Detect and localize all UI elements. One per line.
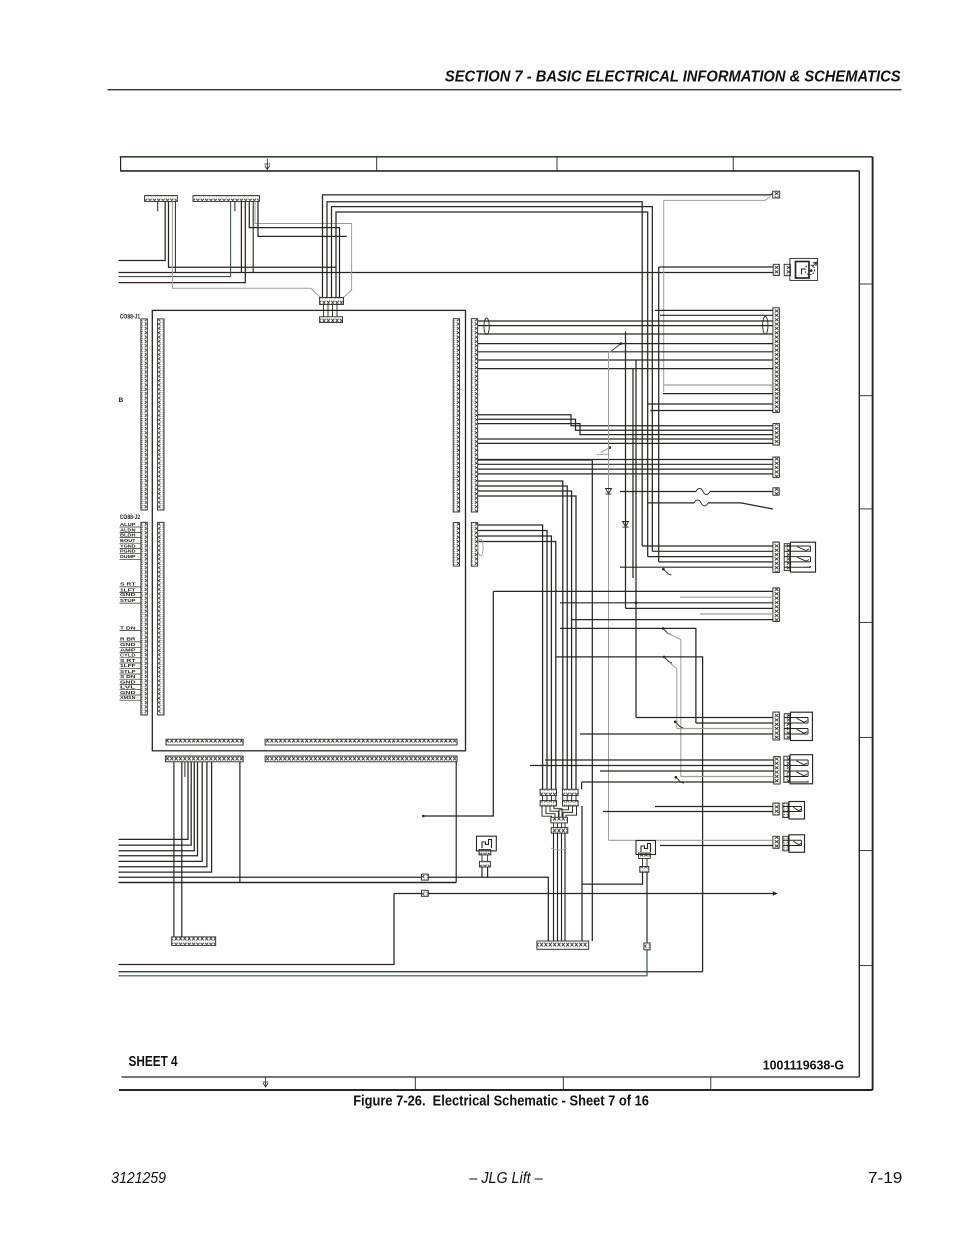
- drawing border left corner stub: [120, 157, 122, 172]
- bundle wires J3 upper to cluster C2: [478, 481, 563, 789]
- alarm A2 body pins: [639, 853, 651, 858]
- cluster connector C4: [563, 801, 579, 806]
- connector J3 inner strip lower: [453, 523, 459, 567]
- drawing border inner bottom edge: [122, 1076, 860, 1078]
- drawing border inner top edge: [121, 170, 860, 172]
- wires into K5: [642, 545, 773, 547]
- cluster interlink C1-C3: [542, 795, 544, 800]
- svg-text:B: B: [119, 397, 124, 404]
- wire X2 gray loop: [255, 201, 352, 297]
- wire long K6 pin1: [493, 590, 773, 592]
- alarm A1 drop wires: [481, 855, 483, 861]
- svg-text:SHEET 4: SHEET 4: [129, 1054, 178, 1070]
- alarm A1 connector: [479, 861, 490, 867]
- inline connector P3: [644, 943, 650, 950]
- cluster connector C6: [551, 828, 568, 834]
- wires into K3: [478, 459, 773, 461]
- wire left exit 2 long to alarm connector: [119, 272, 774, 274]
- alarm A2 connector: [640, 867, 649, 873]
- riser alarm feed: [658, 267, 660, 562]
- relay K9 strip: [773, 803, 779, 815]
- connector J4 below-box strip right: [265, 756, 457, 762]
- funnel pin links: [323, 305, 325, 317]
- bundle wires J3 lower to cluster C1: [478, 525, 543, 789]
- riser mid to dot wire: [424, 591, 493, 816]
- wire X2 loop F: [258, 201, 347, 236]
- drawing border green top line: [120, 156, 873, 158]
- cluster crossover mesh: [542, 806, 552, 817]
- ECM module box: [152, 310, 465, 750]
- gray drop 1: [668, 634, 681, 777]
- alarm A2 body: [636, 841, 656, 855]
- svg-text:SECTION 7 - BASIC ELECTRICAL I: SECTION 7 - BASIC ELECTRICAL INFORMATION…: [445, 68, 901, 85]
- connector CO88-J2 outer strip: [141, 522, 147, 715]
- wire into K4 with break: [620, 491, 696, 493]
- wire X2 stub T2: [252, 201, 254, 272]
- X2 pin stub: [234, 201, 236, 211]
- connector J3 inner strip upper: [453, 319, 459, 512]
- inline connector P2: [422, 890, 429, 896]
- cluster connector C5: [551, 817, 568, 823]
- wire X2 branch down to left exit 2: [240, 201, 242, 272]
- module top inner strip: [320, 317, 343, 323]
- riser strip to heavy bus: [239, 762, 241, 883]
- riser T from K1 wire 368: [632, 369, 634, 578]
- stub pin J4: [184, 762, 186, 777]
- fold marker bottom: [263, 1077, 269, 1087]
- contact switch K7 feed: [674, 721, 677, 724]
- relay K5 body: [784, 544, 790, 571]
- alarm A1 body pins: [479, 850, 491, 855]
- module bottom strip left (inside box): [166, 739, 243, 745]
- riser T from K1 wire 360: [635, 360, 637, 603]
- wire alarm pin1: [659, 266, 774, 268]
- connector J4 below-box strip left: [165, 756, 243, 762]
- alarm A2 drop wires: [642, 858, 644, 866]
- fold marker top: [264, 159, 270, 170]
- connector CO88-J1 outer strip: [141, 319, 147, 510]
- stub 633 to K6 gray: [632, 596, 634, 598]
- wire gray riser from top: [663, 200, 665, 392]
- cluster link C5-C6: [553, 823, 555, 828]
- relay K7 strip: [773, 712, 780, 740]
- contact switch K8: [675, 776, 678, 779]
- drawing border inner right edge: [858, 171, 860, 1077]
- cluster interlink C2-C4: [562, 795, 564, 800]
- wire left exit 4 to X2: [119, 201, 246, 282]
- diode D1 on gray riser: [608, 352, 610, 840]
- bottom bus wire 2: [119, 971, 703, 973]
- wires into K7: [636, 717, 773, 719]
- gray contact branch: [597, 448, 610, 455]
- relay K8 strip: [774, 757, 781, 785]
- junction dot K6: [635, 601, 638, 604]
- wire left exit 1 to X1: [119, 201, 166, 260]
- zone ticks right border: [859, 283, 872, 285]
- twisted pair marker right: [763, 317, 768, 335]
- left exit wires group: [119, 762, 189, 839]
- wire left exit with inline connectors: [119, 876, 422, 878]
- wires into K6: [680, 596, 773, 598]
- wire X1 gray branch to funnel: [172, 201, 320, 297]
- bottom bus wire teal: [119, 950, 648, 976]
- inline connector P1: [422, 874, 429, 880]
- wire top B: [327, 202, 642, 546]
- riser to bottom bus: [702, 846, 704, 972]
- riser C4 to strip: [581, 806, 583, 941]
- gray drop 2: [669, 662, 677, 729]
- connector K6 strip: [773, 588, 780, 622]
- riser K6 to K7: [635, 603, 637, 718]
- page header rule: [108, 89, 902, 91]
- wire A2 left drop to riser: [582, 872, 643, 884]
- alarm horn body H1: [790, 258, 818, 280]
- relay K10 body: [783, 836, 789, 851]
- svg-text:7-19: 7-19: [868, 1170, 903, 1187]
- wire top A to pump plug: [323, 194, 773, 298]
- branch wire mid 1: [560, 628, 696, 723]
- alarm horn mating connector: [784, 264, 790, 275]
- contact switch K5: [662, 568, 665, 571]
- relay K8 body: [784, 756, 790, 782]
- wires into K8: [545, 759, 774, 761]
- connector K1 main right strip: [773, 308, 780, 413]
- junction dot K2: [608, 446, 611, 449]
- connector J3 outer strip upper: [471, 319, 477, 512]
- wires into K10: [609, 839, 773, 841]
- svg-text:CO88-J1: CO88-J1: [120, 314, 141, 321]
- riser to bottom strip right: [478, 460, 592, 941]
- zone ticks bottom border: [414, 1077, 416, 1090]
- cluster connector C2: [563, 789, 579, 795]
- svg-text:1001119638-G: 1001119638-G: [763, 1058, 844, 1073]
- zone ticks top border: [376, 157, 378, 171]
- relay K5 strip: [773, 542, 780, 573]
- drawing border outer right edge: [872, 157, 874, 1090]
- wire P1 to riser: [428, 877, 548, 941]
- relay K7 body: [784, 714, 790, 739]
- pump plug connector: [773, 191, 780, 198]
- connector X2 top strip: [193, 196, 259, 202]
- relay K10 strip: [773, 836, 779, 848]
- riser K8 to cluster: [581, 782, 583, 789]
- module bottom strip right (inside box): [265, 739, 457, 745]
- svg-text:Figure 7-26. Electrical Schem: Figure 7-26. Electrical Schematic - Shee…: [353, 1093, 649, 1110]
- bottom bus wire 1: [119, 894, 395, 965]
- twisted pair marker: [484, 318, 489, 334]
- wire top D: [336, 212, 648, 557]
- wire riser to P2: [394, 893, 422, 895]
- heavy bus wire: [119, 882, 457, 884]
- connector X1 top-left strip: [145, 196, 178, 202]
- bottom center strip: [537, 941, 589, 949]
- X1 pin stub: [157, 201, 159, 211]
- cluster to bottom strip wires: [553, 833, 555, 941]
- branch contact on K1 wire: [620, 342, 623, 345]
- connector K4 single pin: [773, 488, 779, 495]
- wire left exit teal: [119, 201, 231, 276]
- connector CO88-J2 inner strip: [158, 522, 164, 715]
- second break wire: [648, 502, 694, 504]
- alarm horn connector pins: [773, 264, 779, 275]
- twisted pair marker lower: [478, 539, 483, 555]
- wires into K1: [655, 309, 773, 311]
- svg-text:CO88-J2: CO88-J2: [120, 514, 141, 521]
- wire top gray to pump plug: [664, 197, 771, 201]
- wire A2 right drop to P3: [646, 872, 648, 943]
- wire X2 loop to bundle E: [249, 201, 339, 297]
- alarm A1 body: [477, 836, 497, 851]
- drawing border outer bottom edge: [119, 1089, 873, 1091]
- wires into K9: [655, 806, 773, 808]
- wires into K2: [478, 415, 773, 426]
- svg-text:3121259: 3121259: [111, 1170, 166, 1187]
- svg-text:– JLG Lift –: – JLG Lift –: [468, 1170, 542, 1187]
- connector J3 outer strip lower: [471, 523, 477, 567]
- connector CO88-J1 inner strip: [158, 319, 164, 510]
- wire X1 stub T: [174, 201, 176, 272]
- connector K2 strip: [773, 424, 780, 446]
- bottom-left strip: [172, 937, 216, 946]
- branch wire mid 2: [556, 657, 703, 846]
- relay K9 body: [783, 803, 789, 818]
- diode D2 riser: [625, 332, 627, 609]
- module top connector above box: [320, 298, 344, 305]
- wire top C: [332, 207, 653, 552]
- riser right-end to heavy bus: [455, 762, 457, 883]
- wire X1 branch across to bundle: [169, 201, 337, 267]
- cluster connector C1: [540, 789, 556, 795]
- risers to bottom-left strip: [173, 762, 175, 937]
- connector K3 strip: [773, 457, 780, 477]
- arrow wire mid bottom: [428, 893, 775, 895]
- cluster connector C3: [540, 801, 556, 806]
